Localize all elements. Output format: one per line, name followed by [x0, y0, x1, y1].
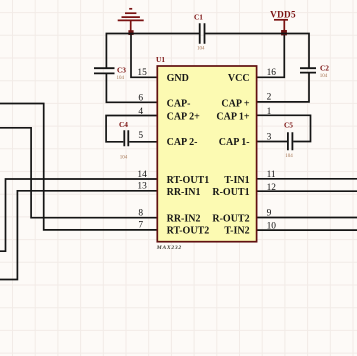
- svg-text:R-OUT1: R-OUT1: [212, 187, 249, 198]
- svg-text:12: 12: [267, 183, 277, 193]
- svg-text:MAX232: MAX232: [156, 245, 182, 251]
- svg-text:CAP 2+: CAP 2+: [167, 111, 201, 122]
- svg-text:CAP +: CAP +: [221, 98, 250, 109]
- wire pin 9 to right edge: [257, 217, 357, 219]
- svg-text:C1: C1: [194, 13, 203, 22]
- svg-text:C5: C5: [284, 120, 293, 129]
- capacitor C1: [194, 13, 205, 44]
- svg-text:4: 4: [138, 107, 143, 117]
- svg-text:104: 104: [120, 155, 128, 160]
- wire VDD5 to pin 16: [257, 35, 285, 77]
- svg-text:CAP 2-: CAP 2-: [167, 137, 198, 148]
- svg-text:CAP 1+: CAP 1+: [216, 111, 250, 122]
- wire pin 1 to C5: [257, 115, 311, 141]
- wire pin 12 to right edge: [257, 190, 357, 192]
- svg-text:VCC: VCC: [228, 73, 250, 84]
- svg-text:VDD5: VDD5: [270, 10, 296, 20]
- wire pin 11 to right edge: [257, 178, 357, 180]
- wire pin 14 to left edge: [0, 179, 157, 251]
- svg-text:RT-OUT2: RT-OUT2: [167, 226, 210, 237]
- wire C2 to pin 2: [257, 73, 309, 102]
- junction at VDD5 and top rail: [281, 30, 287, 35]
- svg-text:3: 3: [267, 133, 272, 143]
- svg-text:2: 2: [267, 92, 272, 102]
- svg-text:104: 104: [320, 74, 328, 79]
- svg-text:13: 13: [137, 182, 147, 192]
- svg-text:9: 9: [267, 209, 272, 219]
- wire top rail from C1 to C2 branch: [205, 34, 309, 69]
- svg-text:R-OUT2: R-OUT2: [212, 213, 249, 224]
- svg-text:U1: U1: [156, 55, 165, 64]
- svg-text:104: 104: [197, 47, 205, 52]
- wire top rail from C3 branch to C1: [106, 34, 199, 69]
- power port VDD5: [274, 20, 288, 30]
- svg-text:C4: C4: [119, 120, 128, 129]
- svg-text:11: 11: [267, 170, 276, 180]
- wire C3 to pin 6: [106, 74, 157, 103]
- svg-text:CAP-: CAP-: [167, 98, 191, 109]
- svg-text:T-IN1: T-IN1: [224, 175, 249, 186]
- ground: [118, 9, 144, 31]
- capacitor C5: [284, 120, 293, 150]
- svg-text:15: 15: [137, 68, 147, 78]
- IC U1 body: [157, 66, 256, 242]
- wire pin 10 to right edge: [257, 229, 357, 231]
- capacitor C3: [94, 66, 126, 75]
- svg-text:C2: C2: [320, 64, 329, 73]
- svg-text:5: 5: [138, 131, 143, 141]
- wire left edge to pin 7: [0, 104, 157, 230]
- svg-text:16: 16: [267, 68, 277, 78]
- wire ground rail to pin 15: [131, 35, 157, 78]
- svg-text:CAP 1-: CAP 1-: [219, 137, 250, 148]
- svg-text:8: 8: [138, 209, 143, 219]
- svg-text:RR-IN1: RR-IN1: [167, 187, 201, 198]
- svg-text:1: 1: [267, 107, 272, 117]
- capacitor C4: [119, 120, 128, 146]
- svg-text:C3: C3: [117, 66, 126, 75]
- svg-text:RR-IN2: RR-IN2: [167, 213, 201, 224]
- svg-text:RT-OUT1: RT-OUT1: [167, 175, 210, 186]
- svg-text:10: 10: [267, 221, 277, 231]
- wire pin 4 to C4: [106, 116, 157, 142]
- svg-text:GND: GND: [167, 73, 189, 84]
- junction at ground and top rail: [128, 30, 133, 35]
- svg-text:6: 6: [138, 93, 143, 103]
- wire C4 to pin 5: [129, 141, 157, 143]
- capacitor C2: [300, 64, 329, 73]
- svg-text:104: 104: [285, 154, 293, 159]
- wire pin 3 to C5: [257, 141, 287, 143]
- svg-text:104: 104: [116, 76, 124, 81]
- wire pin 13 to left edge: [0, 191, 157, 280]
- svg-text:14: 14: [137, 170, 147, 180]
- svg-text:T-IN2: T-IN2: [224, 226, 249, 237]
- wire left edge to pin 8: [0, 128, 157, 218]
- svg-text:7: 7: [138, 221, 143, 231]
